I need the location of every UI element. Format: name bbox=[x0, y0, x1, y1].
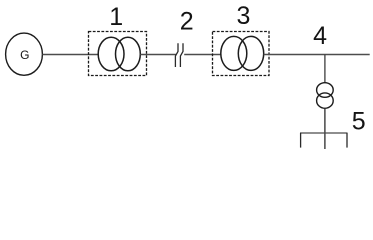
svg-text:5: 5 bbox=[352, 108, 366, 136]
transformer T1 (dashed boundary + two windings) bbox=[89, 32, 147, 76]
wire W6: branch below transformer to load bbox=[324, 108, 326, 149]
svg-text:1: 1 bbox=[109, 3, 123, 31]
wire W2: transformer 1 to line break bbox=[140, 54, 176, 56]
transformer T5 (branch two-winding) bbox=[317, 83, 334, 109]
svg-text:G: G bbox=[20, 48, 29, 62]
svg-text:4: 4 bbox=[313, 22, 327, 50]
wire W1: generator to transformer 1 bbox=[42, 54, 98, 56]
wire W3: line break to transformer 3 bbox=[184, 54, 221, 56]
transmission line 2 (break symbol, two strokes) bbox=[175, 43, 183, 67]
svg-text:2: 2 bbox=[180, 8, 194, 36]
transformer T3 (dashed boundary + two windings) bbox=[213, 32, 270, 76]
wire W5: vertical branch from node 4 bbox=[324, 55, 326, 84]
load 5 (comb symbol) bbox=[300, 133, 348, 148]
wire W4: transformer 3 to bus end (node 4) bbox=[264, 54, 370, 56]
generator G bbox=[6, 33, 43, 75]
svg-text:3: 3 bbox=[236, 2, 250, 30]
